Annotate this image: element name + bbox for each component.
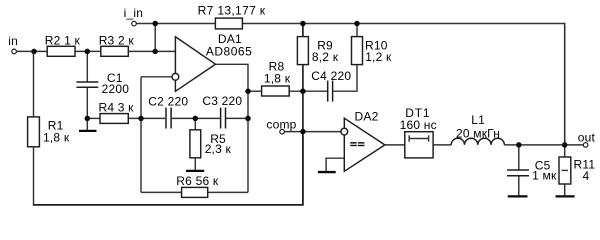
comparator U2 DA2 triangle	[344, 118, 385, 171]
comparator DA2 inverting bubble	[341, 128, 348, 135]
svg-text:R4 3 к: R4 3 к	[99, 100, 135, 114]
node junction R8 / C4 / R9	[300, 88, 306, 94]
ground G3 (DA2 noninverting)	[318, 171, 336, 173]
node junction top rail / R9	[300, 21, 306, 27]
node junction input rail / R1	[31, 49, 37, 55]
node junction L1 / C5	[516, 142, 522, 148]
wire C4 right plate to R10 bottom	[333, 65, 357, 92]
wire R9 bottom lead to R8 rail	[302, 65, 304, 92]
wire R6 rail left	[141, 191, 182, 193]
op-amp DA1 inverting bubble	[172, 73, 179, 80]
capacitor C5	[507, 170, 529, 176]
wire input rail: R3 to DA1 noninverting input	[128, 50, 175, 52]
wire R8 rail: drop to R8	[248, 90, 262, 92]
node junction R3 / DA1 / i_in riser	[152, 49, 158, 55]
node comp terminal circle	[280, 129, 285, 134]
wire R11 bottom lead to ground G5	[564, 184, 566, 195]
resistor R6	[182, 187, 208, 197]
wire C5 bottom lead to ground G4	[518, 176, 520, 195]
svg-text:i_in: i_in	[124, 6, 143, 20]
wire DA1 output to vertical drop	[216, 64, 249, 192]
wire DA2 noninverting input	[326, 158, 344, 171]
delay line DT1 internal symbol	[409, 135, 428, 141]
svg-text:R6 56 к: R6 56 к	[176, 174, 219, 188]
wire R11 top lead	[564, 145, 566, 157]
node junction C1 / R4 / ground	[85, 116, 91, 122]
node junction top rail / i_in	[152, 21, 158, 27]
wire DA2 output to DT1	[385, 144, 405, 146]
wire inverting input riser x=141	[140, 77, 142, 193]
wire C3 right plate to output rail	[226, 117, 248, 119]
node junction comp / DA2 inverting	[300, 129, 306, 135]
wire comp junction to DA2 inverting bubble	[303, 131, 341, 133]
ground G4 (C5 bottom)	[508, 195, 528, 197]
wire R10 top lead	[356, 24, 358, 37]
resistor R5	[190, 130, 201, 158]
resistor R11	[559, 157, 571, 184]
capacitor C3	[221, 108, 226, 129]
svg-text:comp: comp	[266, 117, 296, 131]
svg-text:C2 220: C2 220	[148, 95, 188, 109]
resistor R10	[352, 37, 363, 65]
svg-text:C3 220: C3 220	[202, 94, 242, 108]
svg-text:20 мкГн: 20 мкГн	[456, 126, 500, 140]
svg-text:1,2 к: 1,2 к	[365, 50, 392, 64]
wire comp terminal to junction	[284, 131, 303, 133]
wire R4 to C2 left plate	[128, 117, 165, 119]
wire junction to ground G1	[86, 118, 88, 130]
wire bottom rail	[33, 132, 303, 205]
wire top rail right (R7 to right corner, down right side)	[242, 24, 564, 145]
node i_in terminal circle	[132, 21, 137, 26]
resistor R8	[262, 86, 290, 96]
svg-text:8,2 к: 8,2 к	[312, 50, 339, 64]
wire vertical i_in tap to input rail	[154, 24, 156, 52]
svg-text:AD8065: AD8065	[206, 44, 252, 58]
resistor R3	[101, 46, 129, 56]
svg-text:R2 1 к: R2 1 к	[45, 33, 81, 47]
svg-text:R3 2 к: R3 2 к	[99, 34, 135, 48]
svg-text:2200: 2200	[102, 82, 130, 96]
wire R8 to C4 left plate	[289, 90, 327, 92]
wire input rail: R2 to R3	[75, 50, 101, 52]
resistor R4	[100, 114, 128, 124]
node junction C2 / C3 / R5	[193, 116, 199, 122]
node junction DA1 output drop / R8	[245, 88, 251, 94]
resistor R11 internal dash	[562, 169, 568, 171]
wire C2 right plate to C3 left plate	[172, 117, 220, 119]
ground G2 (R5 bottom)	[186, 170, 204, 172]
node junction R4 / C2 / inverting riser	[138, 116, 144, 122]
wire inverting input horizontal to DA1 bubble	[141, 76, 172, 78]
svg-text:2,3 к: 2,3 к	[205, 142, 232, 156]
ground G5 (R11 bottom)	[556, 195, 575, 197]
wire top rail left (i_in to R7)	[136, 23, 215, 25]
comparator DA2 equality symbol ==	[350, 142, 364, 146]
node in terminal circle	[12, 49, 17, 54]
wire R9 rail down to comp junction	[302, 91, 304, 131]
op-amp U1 DA1 triangle	[175, 37, 215, 92]
wire L1 to out terminal	[504, 144, 583, 146]
wire R6 rail right	[208, 191, 248, 193]
node junction top rail / R10	[354, 21, 360, 27]
svg-text:4: 4	[583, 169, 590, 183]
svg-text:DA2: DA2	[355, 110, 379, 124]
wire DT1 to L1	[433, 144, 451, 146]
resistor R7	[215, 18, 242, 29]
node junction right rail / out / R11	[562, 142, 568, 148]
capacitor C4	[328, 81, 333, 102]
inductor L1	[451, 138, 504, 145]
svg-text:1,8 к: 1,8 к	[264, 72, 291, 86]
delay line DT1 box	[405, 132, 433, 158]
wire R5 top lead	[194, 118, 196, 129]
wire R1 bottom to ground rail	[33, 147, 35, 205]
svg-text:R7 13,177 к: R7 13,177 к	[198, 3, 266, 17]
wire C5 top lead	[518, 145, 520, 170]
capacitor C2	[166, 108, 171, 129]
resistor R9	[297, 37, 308, 65]
svg-text:in: in	[8, 34, 18, 48]
wire R1 branch down from input rail	[33, 51, 35, 117]
svg-text:L1: L1	[471, 113, 485, 127]
svg-text:out: out	[578, 131, 596, 145]
wire R9 top lead	[302, 24, 304, 37]
resistor R2	[47, 46, 75, 56]
svg-text:1 мк: 1 мк	[532, 168, 557, 182]
wire R5 bottom lead to ground G2	[194, 158, 196, 170]
node junction R2 / R3 / C1	[85, 49, 91, 55]
node junction C3 / output drop	[245, 116, 251, 122]
resistor R1	[28, 117, 40, 147]
wire R4 rail: junction to R4	[87, 117, 100, 119]
capacitor C1	[76, 82, 98, 87]
ground G1 (C1/R4 node)	[79, 130, 97, 132]
wire C1 branch from input rail	[86, 51, 88, 82]
svg-text:160 нс: 160 нс	[400, 118, 437, 132]
wire C1 bottom to R4 rail junction	[86, 87, 88, 118]
node out terminal circle	[583, 143, 588, 148]
wire input rail: in terminal to R2	[16, 50, 47, 52]
svg-text:1,8 к: 1,8 к	[43, 131, 70, 145]
svg-text:C4 220: C4 220	[311, 69, 351, 83]
